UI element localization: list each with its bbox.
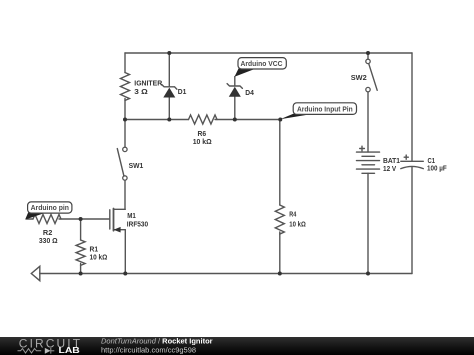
svg-text:M1: M1 (127, 211, 136, 220)
svg-text:D1: D1 (178, 87, 187, 96)
svg-text:100 µF: 100 µF (427, 164, 447, 173)
svg-text:R4: R4 (289, 210, 297, 219)
svg-text:330 Ω: 330 Ω (39, 236, 58, 245)
svg-text:10 kΩ: 10 kΩ (289, 220, 306, 229)
svg-text:Arduino pin: Arduino pin (31, 203, 70, 212)
svg-text:12 V: 12 V (383, 164, 396, 173)
svg-text:http://circuitlab.com/cc9g598: http://circuitlab.com/cc9g598 (101, 345, 196, 354)
svg-text:10 kΩ: 10 kΩ (193, 137, 212, 146)
svg-text:IRF530: IRF530 (127, 220, 148, 229)
svg-text:LAB: LAB (59, 345, 80, 355)
svg-text:Arduino Input Pin: Arduino Input Pin (297, 104, 353, 113)
svg-text:DontTurnAround / Rocket Ignito: DontTurnAround / Rocket Ignitor (101, 337, 213, 346)
svg-text:10 kΩ: 10 kΩ (90, 252, 108, 261)
svg-text:SW2: SW2 (351, 73, 367, 82)
svg-text:SW1: SW1 (129, 161, 144, 170)
svg-text:3 Ω: 3 Ω (134, 87, 148, 96)
svg-text:Arduino VCC: Arduino VCC (241, 59, 284, 68)
svg-text:D4: D4 (245, 88, 254, 97)
